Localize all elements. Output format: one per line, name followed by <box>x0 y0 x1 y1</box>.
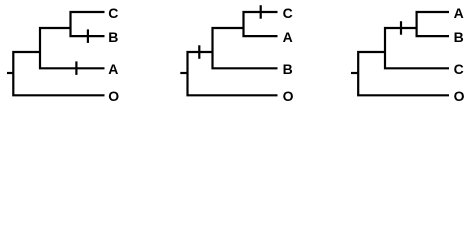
svg-text:O: O <box>454 88 465 104</box>
svg-text:O: O <box>108 88 119 104</box>
tree 2 root bracket: O branch + root vertical + edge to node2 <box>188 52 278 95</box>
tree 3 root stub <box>351 72 358 74</box>
svg-text:B: B <box>283 61 293 77</box>
tree 2 node2 bracket: B branch + vertical + edge to node1 <box>213 28 278 68</box>
tree 1 root bracket: O branch + root vertical + edge to node2 <box>13 52 104 95</box>
svg-text:C: C <box>454 61 464 77</box>
tree 3 node1 bracket: B branch + vertical + A branch <box>417 12 449 36</box>
svg-text:A: A <box>454 5 464 21</box>
tree 1 tick on A branch <box>75 61 77 75</box>
tree 2 tick on C branch <box>260 5 262 19</box>
tree 1 tick on B branch <box>87 29 89 43</box>
svg-text:B: B <box>454 29 464 45</box>
tree 2 tick on root-node2 edge <box>198 45 200 59</box>
tree 2 node1 bracket: A branch + vertical + C branch <box>244 12 278 36</box>
tree 3 node2 bracket: C branch + vertical + edge to node1 <box>385 28 449 68</box>
svg-text:C: C <box>108 5 118 21</box>
tree 2 root stub <box>180 72 187 74</box>
svg-text:C: C <box>283 5 293 21</box>
tree 3 tick on node2-node1 edge <box>400 21 402 35</box>
svg-text:A: A <box>283 29 293 45</box>
svg-text:B: B <box>108 29 118 45</box>
tree 3 root bracket: O branch + root vertical + edge to node2 <box>358 52 449 95</box>
svg-text:O: O <box>283 88 294 104</box>
tree 1 root stub <box>7 72 13 74</box>
svg-text:A: A <box>108 61 118 77</box>
tree 1 node1 bracket: B branch + vertical + C branch <box>71 12 105 36</box>
tree 1 node2 bracket: A branch + vertical + edge to node1 <box>40 28 105 68</box>
